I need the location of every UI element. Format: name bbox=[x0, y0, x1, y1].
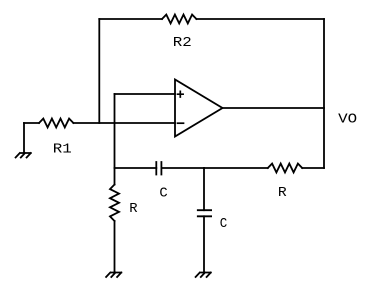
svg-text:C: C bbox=[159, 186, 167, 202]
svg-text:R1: R1 bbox=[53, 141, 72, 157]
wire C2 top lead bbox=[203, 168, 205, 210]
wire vertical R bottom lead to ground bbox=[114, 221, 116, 273]
svg-text:VO: VO bbox=[338, 111, 357, 127]
op-amp plus sign bbox=[178, 91, 184, 97]
wire vertical R top lead bbox=[114, 168, 116, 185]
wire inverting input (R1/R2 junction to op-amp minus) bbox=[73, 122, 175, 124]
svg-text:R: R bbox=[129, 201, 138, 217]
svg-text:R2: R2 bbox=[173, 35, 192, 51]
op-amp U1 triangle bbox=[175, 80, 223, 137]
wire top right segment (R2 to right rail) bbox=[196, 18, 324, 20]
wire non-inverting input horizontal bbox=[115, 93, 176, 95]
wire op-amp output to rail bbox=[223, 107, 325, 109]
ground (below capacitor C2) bbox=[196, 273, 211, 278]
capacitor C1 plates bbox=[156, 162, 161, 175]
wire C1 to C2 junction bbox=[161, 167, 204, 169]
svg-text:C: C bbox=[220, 216, 228, 232]
resistor R (bottom right) bbox=[268, 164, 302, 173]
wire R1 left lead bbox=[24, 122, 39, 124]
wire R to right rail corner bbox=[302, 167, 324, 169]
wire feedback left vertical (R2 to inverting node) bbox=[98, 19, 100, 123]
ground (below shunt resistor R) bbox=[106, 273, 121, 278]
wire C2 bottom lead to ground bbox=[203, 216, 205, 272]
wire top left segment (output loop top, left of R2) bbox=[99, 18, 162, 20]
op-amp minus sign bbox=[178, 122, 184, 124]
wire C2 junction to resistor R right bbox=[204, 167, 268, 169]
wire non-inverting vertical (down to RC network) bbox=[114, 94, 116, 168]
resistor R2 bbox=[162, 15, 196, 24]
capacitor C2 plates bbox=[198, 210, 211, 216]
svg-text:R: R bbox=[278, 185, 287, 201]
wire right rail (output node V0) bbox=[323, 19, 325, 168]
ground (left, below R1) bbox=[16, 153, 31, 158]
resistor R1 bbox=[39, 119, 73, 128]
wire R1 left corner down to ground bbox=[23, 123, 25, 153]
wire bottom network left lead (to capacitor C1) bbox=[115, 167, 157, 169]
resistor R (vertical shunt) bbox=[110, 185, 119, 222]
